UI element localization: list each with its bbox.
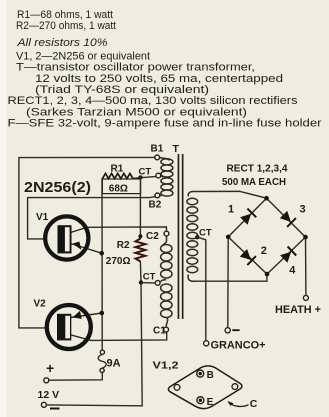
resistor R1 value box (102, 179, 140, 194)
svg-text:V2: V2 (34, 299, 47, 310)
transistor V2 collector inner lead (71, 335, 91, 341)
svg-text:1: 1 (228, 204, 234, 216)
pin B (197, 370, 204, 377)
svg-text:CT: CT (143, 272, 156, 283)
transistor V2 base bar (57, 314, 71, 341)
svg-text:4: 4 (289, 264, 296, 276)
terminal GRANCO (204, 341, 209, 346)
svg-text:E: E (207, 397, 214, 408)
svg-text:(Sarkes Tarzian M500 or equiva: (Sarkes Tarzian M500 or equivalent) (26, 106, 247, 118)
wire top rail from frame corner to B1 (19, 156, 155, 158)
transistor V1 emitter lead to bus (71, 244, 102, 254)
transformer T core (178, 154, 180, 319)
svg-text:270Ω: 270Ω (106, 256, 131, 267)
label minus sign (50, 408, 60, 410)
svg-text:R2—270 ohms, 1 watt: R2—270 ohms, 1 watt (16, 20, 116, 32)
terminal HEATH plus (303, 295, 308, 300)
terminal C2 (164, 231, 169, 236)
svg-text:C: C (250, 398, 258, 410)
svg-text:T: T (173, 143, 180, 155)
wire V1 collector to C2 (87, 227, 167, 232)
node secondary CT tap (195, 235, 199, 239)
node V1 emitter on bus (99, 251, 104, 256)
terminal minus output (225, 328, 230, 333)
svg-text:9A: 9A (107, 357, 121, 369)
wire V2 base lead (19, 327, 46, 329)
terminal C1 (164, 327, 169, 332)
svg-text:All resistors 10%: All resistors 10% (16, 37, 108, 49)
svg-text:(Triad TY-68S or equivalent): (Triad TY-68S or equivalent) (35, 84, 209, 96)
fuse top terminal (100, 350, 104, 354)
node junction R1/CT/R2 (138, 175, 142, 179)
wire B2 to V1 base (28, 197, 156, 239)
svg-text:RECT1, 2, 3, 4—500 ma, 130 vol: RECT1, 2, 3, 4—500 ma, 130 volts silicon… (8, 95, 299, 107)
svg-text:V1, 2—2N256 or equivalent: V1, 2—2N256 or equivalent (16, 50, 150, 62)
wire fuse bottom to plus terminal (49, 373, 103, 381)
label minus dash (232, 329, 239, 331)
transistor V1 base bar (58, 225, 72, 253)
rectifier diode 1 (240, 214, 251, 225)
wire left rail down to V2 base corner (18, 158, 20, 328)
wire bridge right corner down to HEATH terminal (305, 237, 307, 295)
svg-text:B1: B1 (151, 144, 164, 155)
winding B1-B2 feedback coil (160, 158, 173, 196)
svg-text:T—transistor oscillator power: T—transistor oscillator power transforme… (16, 62, 255, 74)
rectifier diode 3 (280, 211, 291, 222)
svg-text:CT: CT (139, 167, 152, 178)
wire secondary bottom to bridge bottom corner (196, 274, 267, 281)
winding C2-C1 primary coil (161, 236, 172, 327)
bridge edge top-right (267, 198, 306, 237)
svg-text:B: B (207, 370, 214, 381)
transistor V1 emitter arrow (73, 242, 82, 250)
svg-text:500 MA EACH: 500 MA EACH (222, 176, 286, 188)
case mounting hole right (232, 384, 238, 390)
wire emitter bus (R1 left down to fuse) (101, 179, 103, 350)
svg-text:12 V: 12 V (38, 389, 60, 401)
terminal plus 12V (44, 378, 49, 383)
node bridge bottom corner (265, 272, 270, 277)
svg-text:68Ω: 68Ω (109, 184, 128, 195)
wire junction down to R2 top (139, 178, 141, 239)
wire bridge left corner down to minus terminal (227, 237, 229, 328)
case mounting hole left (174, 385, 180, 391)
svg-text:B2: B2 (149, 200, 162, 211)
wire secondary top to bridge top corner (240, 191, 267, 198)
bridge edge left-bottom (228, 237, 267, 274)
bridge edge left-top (228, 198, 266, 237)
transistor V2 circle (47, 305, 91, 349)
node bridge top corner (264, 196, 269, 201)
wire R1 right to CT of feedback winding (133, 176, 156, 178)
node junction at R2 top (138, 234, 142, 238)
node V2 emitter on bus (100, 311, 105, 316)
svg-text:GRANCO+: GRANCO+ (211, 340, 266, 352)
transistor V1 circle (45, 216, 88, 259)
transistor V2 emitter lead to bus (71, 313, 102, 318)
resistor R2 zigzag (136, 239, 146, 262)
resistor R1 zigzag (102, 173, 133, 178)
fuse bottom terminal (100, 368, 104, 372)
svg-text:HEATH +: HEATH + (275, 304, 321, 316)
wire secondary CT down to GRANCO terminal (197, 237, 205, 340)
wire V2 collector to C1 (91, 332, 167, 340)
svg-text:C2: C2 (146, 231, 159, 242)
winding secondary coil (187, 191, 240, 281)
transistor V1 collector inner lead (71, 227, 87, 232)
svg-text:F—SFE 32-volt, 9-ampere fuse a: F—SFE 32-volt, 9-ampere fuse and in-line… (8, 118, 322, 130)
terminal CT primary (155, 281, 160, 286)
transistor V2 emitter arrow (73, 311, 82, 319)
svg-text:V1: V1 (36, 212, 49, 223)
transistor case outline TO-3 (168, 366, 242, 409)
svg-text:3: 3 (300, 204, 306, 216)
node junction R2/CT2 (139, 280, 143, 284)
terminal minus 12V (41, 402, 46, 407)
svg-text:+: + (46, 360, 54, 376)
svg-text:CT: CT (199, 227, 212, 238)
svg-text:R1—68 ohms, 1 watt: R1—68 ohms, 1 watt (17, 9, 113, 21)
node bridge right corner (303, 235, 308, 240)
node bridge left corner (226, 235, 231, 240)
svg-text:2N256(2): 2N256(2) (24, 180, 91, 196)
terminal B1 (155, 155, 160, 160)
pin E (197, 397, 204, 404)
rectifier diode 2 (240, 249, 251, 260)
svg-text:2: 2 (261, 245, 267, 257)
bridge edge bottom-right (267, 237, 306, 274)
terminal CT feedback (156, 173, 161, 178)
wire junction to CT2 terminal (141, 282, 155, 284)
fuse F 9A squiggle (98, 354, 106, 368)
svg-text:R1: R1 (111, 163, 124, 174)
terminal B2 (155, 193, 160, 198)
rectifier diode 4 (280, 252, 291, 263)
svg-text:R2: R2 (117, 240, 130, 251)
svg-text:V1,2: V1,2 (153, 360, 179, 372)
wire R2 bottom to primary CT junction and down to minus rail (47, 262, 143, 406)
svg-text:C1: C1 (153, 326, 166, 337)
svg-text:RECT 1,2,3,4: RECT 1,2,3,4 (227, 163, 288, 175)
